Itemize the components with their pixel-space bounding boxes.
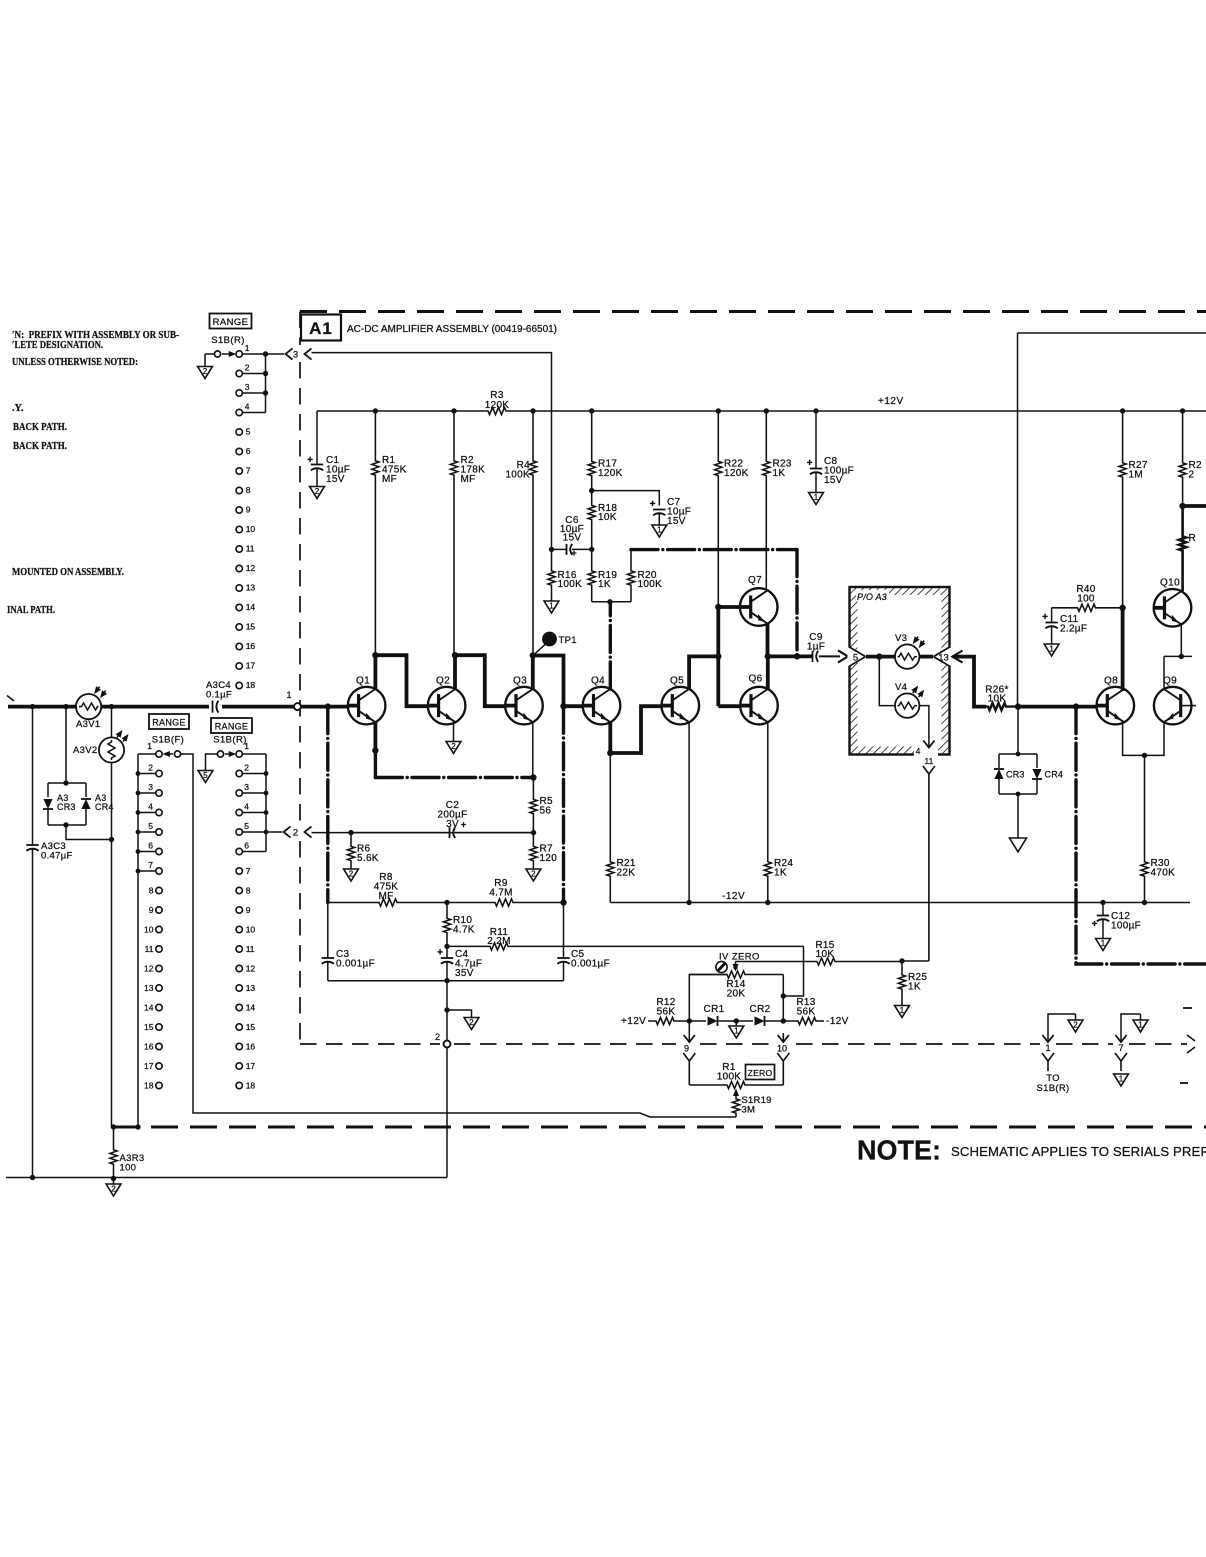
svg-text:2: 2	[293, 828, 298, 839]
svg-text:4.7M: 4.7M	[489, 888, 512, 899]
junction dots on bottom S1B(R) bus	[264, 771, 269, 776]
R14 wiper arrow	[735, 963, 737, 967]
svg-text:12: 12	[246, 563, 256, 573]
switch S1B(R) bottom contact 10	[236, 926, 242, 932]
svg-text:S1B(R): S1B(R)	[1037, 1083, 1070, 1094]
transistor Q6	[740, 687, 778, 725]
resistor R23 1K	[763, 411, 770, 589]
svg-text:8: 8	[149, 886, 154, 896]
Q8 collector thick wire to R40 node	[1121, 608, 1125, 691]
svg-text:ZERO: ZERO	[748, 1068, 773, 1078]
transistor Q7	[740, 588, 778, 626]
resistor R17 120K	[588, 411, 595, 491]
svg-text:5: 5	[853, 652, 858, 663]
IV ZERO adjust symbol	[716, 961, 727, 972]
switch S1B(R) contact 14	[236, 604, 242, 610]
svg-text:10: 10	[246, 925, 256, 935]
svg-text:RANGE: RANGE	[213, 317, 249, 328]
svg-text:100K: 100K	[638, 579, 663, 590]
ground 2 below A3R3	[111, 1176, 116, 1181]
svg-text:120K: 120K	[598, 468, 623, 479]
switch S1B(R) bus wire	[265, 354, 267, 413]
svg-text:MOUNTED ON ASSEMBLY.: MOUNTED ON ASSEMBLY.	[12, 567, 124, 578]
svg-text:2.2µF: 2.2µF	[1060, 624, 1087, 635]
connector 3 chevrons and label	[286, 348, 293, 359]
svg-text:1M: 1M	[1129, 470, 1144, 481]
resistor R8 475K MF	[328, 899, 447, 906]
svg-text:1: 1	[244, 741, 249, 751]
wire connector 3 into A1 to node above C6	[312, 353, 552, 550]
signal wire C9 node	[768, 655, 812, 659]
ground 1 below R16	[544, 601, 559, 613]
svg-text:8: 8	[246, 886, 251, 896]
ground 1 below R25	[895, 1006, 910, 1018]
svg-text:A3V1: A3V1	[76, 719, 100, 730]
svg-text:15V: 15V	[563, 533, 582, 544]
wire R11 right end down to R14 node	[783, 946, 803, 996]
transistor Q5	[662, 687, 700, 725]
output node right stub	[1179, 503, 1185, 509]
connector 7 grounds	[1121, 1014, 1141, 1033]
input signal line from page left	[8, 705, 294, 709]
svg-text:MF: MF	[461, 474, 476, 485]
svg-text:CR3: CR3	[1006, 770, 1025, 780]
resistor R1 475K MF	[372, 411, 379, 655]
switch S1B(R) bottom contact 9	[236, 907, 242, 913]
notch connector at box bottom	[914, 745, 938, 756]
resistor R15 10K	[735, 962, 737, 968]
Q5 collector wire up	[689, 656, 718, 689]
svg-text:9: 9	[246, 505, 251, 515]
ground 2 below R7	[526, 869, 541, 881]
ground 1 at CR1 CR2 junction	[734, 1018, 739, 1023]
svg-text:100: 100	[1077, 594, 1095, 605]
Q8 emitter wire	[1123, 721, 1145, 755]
junction dot R25 top	[899, 958, 904, 963]
svg-text:3: 3	[245, 382, 250, 392]
lamp A3V1 in series with input line	[76, 694, 101, 719]
page edge stubs	[1183, 1007, 1192, 1009]
resistor R9 4.7M	[447, 899, 564, 906]
capacitor A3C4 0.1uF in input line	[209, 700, 222, 713]
svg-text:1: 1	[814, 493, 819, 502]
transistor Q9	[1154, 687, 1192, 725]
svg-text:3: 3	[293, 350, 298, 361]
svg-text:1: 1	[245, 343, 250, 353]
svg-text:BACK PATH.: BACK PATH.	[13, 441, 67, 452]
wire R17-R18 junction to C7	[592, 491, 660, 506]
RANGE label box above S1B(F)	[149, 714, 189, 729]
top feedback wire	[1018, 332, 1206, 334]
junction dot CR1 left	[687, 1018, 692, 1023]
capacitor A3C3 0.47uF	[32, 707, 34, 845]
svg-text:4.7K: 4.7K	[453, 925, 475, 936]
switch S1B(R) contact 18	[236, 682, 242, 688]
switch S1B(R) bottom contact 17	[236, 1063, 242, 1069]
resistor R20 100K	[627, 550, 634, 602]
diode CR1	[689, 1020, 706, 1022]
Q6 emitter wire to R24	[767, 722, 769, 862]
resistor R22 120K	[715, 411, 722, 607]
diode CR4	[1036, 754, 1038, 768]
svg-text:16: 16	[144, 1042, 154, 1052]
svg-text:V3: V3	[895, 633, 907, 644]
resistor A3R3 100	[110, 1127, 117, 1179]
svg-text:120K: 120K	[485, 400, 510, 411]
svg-text:4: 4	[148, 802, 153, 812]
resistor R16 100K	[548, 549, 555, 601]
svg-text:8: 8	[246, 485, 251, 495]
svg-text:14: 14	[144, 1003, 154, 1013]
svg-text:1: 1	[147, 741, 152, 751]
wire bus to connector 2	[266, 831, 282, 833]
junction dots on S1B(F) bus	[136, 771, 141, 776]
svg-text:2: 2	[435, 1032, 440, 1042]
switch S1B(R) contact 8	[236, 487, 242, 493]
svg-text:-12V: -12V	[722, 891, 745, 902]
switch S1B(R) contact 12	[236, 565, 242, 571]
test point TP1	[542, 632, 557, 647]
notch connector 13 into box	[934, 646, 952, 667]
capacitor bottom common wire	[328, 980, 564, 982]
svg-text:3M: 3M	[742, 1105, 756, 1116]
svg-text:470K: 470K	[1151, 868, 1176, 879]
Q4 collector wire	[609, 602, 612, 689]
svg-text:14: 14	[246, 602, 256, 612]
resistor R7 120	[530, 833, 537, 869]
svg-text:100: 100	[120, 1163, 137, 1174]
svg-text:15: 15	[246, 1022, 256, 1032]
switch S1B(R) bottom contact 11	[236, 946, 242, 952]
potentiometer R14 20K	[689, 975, 727, 1022]
svg-text:13: 13	[246, 983, 256, 993]
resistor R2 178K MF	[450, 411, 457, 655]
wire C4 node down to pin 2	[446, 981, 448, 1041]
svg-text:CR3: CR3	[57, 802, 76, 812]
ground 2 below R6	[344, 869, 359, 881]
switch S1B(R) contact 11	[236, 546, 242, 552]
svg-text:13: 13	[938, 652, 949, 663]
svg-text:7: 7	[246, 466, 251, 476]
svg-text:Q3: Q3	[513, 676, 527, 687]
ZERO label box	[746, 1065, 775, 1080]
resistor R24 1K	[764, 862, 771, 903]
switch S1B(R) contact 3	[236, 390, 242, 396]
svg-text:.Y.: .Y.	[12, 403, 24, 414]
junction dot Q4 collector node	[607, 599, 612, 604]
svg-text:+12V: +12V	[878, 396, 904, 407]
svg-text:+: +	[1092, 919, 1098, 930]
node 1 input pin open circle on A1 boundary	[294, 703, 301, 710]
RANGE label box above bottom S1B(R)	[211, 718, 252, 733]
switch S1B(F) contact 13	[156, 985, 162, 991]
ground 2 stub near pin 2	[447, 1010, 472, 1018]
Q9 emitter wire	[1145, 721, 1165, 755]
svg-text:100µF: 100µF	[1111, 921, 1141, 932]
transistor Q3	[505, 687, 543, 725]
svg-text:5: 5	[244, 821, 249, 831]
connector 2 chevrons and label	[284, 826, 291, 837]
feedback dash-dot Q1 emitter to bus	[374, 751, 377, 778]
switch S1B(R) bottom contact 13	[236, 985, 242, 991]
A1 assembly boundary bottom dashed line	[300, 1043, 440, 1045]
switch S1B(F) contact 17	[156, 1063, 162, 1069]
svg-text:1: 1	[1138, 1021, 1143, 1030]
capacitor C7 10uF 15V	[653, 509, 665, 511]
wire V4 to connector 11 exit	[919, 706, 929, 738]
wire V3 to connector 13	[919, 655, 933, 659]
svg-text:2: 2	[244, 763, 249, 773]
svg-text:BACK PATH.: BACK PATH.	[13, 422, 67, 433]
svg-text:11: 11	[246, 544, 255, 554]
capacitor C6 10uF 15V horizontal	[552, 548, 567, 550]
Q6 collector wire up to C9 node	[766, 656, 770, 689]
switch S1B(F) wiper	[174, 751, 180, 757]
transistor Q2	[428, 687, 466, 725]
svg-text:1: 1	[1101, 939, 1106, 948]
switch S1B(F) contact 11	[156, 946, 162, 952]
junction dots on S1B(R) bus	[263, 351, 268, 356]
RANGE label box (top)	[210, 314, 252, 329]
svg-text:2: 2	[1189, 470, 1195, 481]
feedback dash-dot vertical to C9 output node	[795, 550, 798, 657]
svg-text:1K: 1K	[908, 982, 921, 993]
resistor R27 1M	[1119, 411, 1126, 608]
svg-text:100K: 100K	[505, 470, 530, 481]
svg-text:NOTE:: NOTE:	[857, 1135, 941, 1166]
svg-text:22K: 22K	[617, 868, 636, 879]
wire connector 2 into A1 to C2 line	[312, 832, 534, 834]
switch S1B(R) bottom contact 18	[236, 1082, 242, 1088]
svg-text:5: 5	[246, 427, 251, 437]
arrow into connector 5	[819, 655, 840, 657]
thick wire Q5 collector node down to Q6 base	[716, 607, 720, 706]
feedback dash-dot bus R20 top to C9 node	[631, 548, 797, 551]
svg-text:0.1µF: 0.1µF	[206, 690, 232, 701]
svg-text:2: 2	[148, 763, 153, 773]
switch S1B(R) contact 2	[236, 370, 242, 376]
svg-text:10: 10	[777, 1044, 787, 1054]
svg-text:R: R	[1189, 533, 1197, 544]
svg-text:1: 1	[1045, 1043, 1050, 1053]
switch S1B(R) contact 13	[236, 585, 242, 591]
switch S1B(R) contact 9	[236, 507, 242, 513]
switch S1B(F) contact 4	[156, 809, 162, 815]
svg-text:+: +	[1042, 612, 1048, 623]
switch S1B(F) contact 14	[156, 1004, 162, 1010]
switch S1B(R) bottom contact 12	[236, 965, 242, 971]
ground 5 at bottom S1B(R) wiper	[206, 754, 218, 771]
svg-text:0.001µF: 0.001µF	[336, 959, 375, 970]
switch S1B(R) bottom contact 5	[236, 829, 242, 835]
switch S1B(F) contact 3	[156, 790, 162, 796]
junction dot to CR pair	[63, 704, 68, 709]
resistor R13 56K	[783, 1017, 824, 1024]
wire S1B(F) wiper to right frame down to SIR19 line	[181, 754, 736, 1117]
connector 11 receiving chevron below box	[923, 766, 935, 774]
external arrow into connector 13	[953, 651, 963, 663]
resistor R3 120K in rail	[488, 407, 507, 414]
svg-text:Q1: Q1	[356, 676, 370, 687]
A1 assembly boundary top dashed line	[300, 310, 1206, 313]
svg-text:MF: MF	[382, 474, 397, 485]
svg-text:11: 11	[924, 756, 933, 766]
svg-text:1: 1	[657, 526, 662, 535]
svg-text:35V: 35V	[455, 968, 474, 979]
junction dots on R8-R9 line	[444, 900, 449, 905]
svg-text:1: 1	[549, 602, 554, 611]
svg-text:2: 2	[349, 870, 354, 879]
bottom common rail wire	[6, 1177, 447, 1179]
svg-text:RANGE: RANGE	[215, 722, 249, 732]
svg-text:4: 4	[916, 746, 921, 756]
svg-text:1: 1	[1119, 1075, 1124, 1084]
heavy dash-dot feedback from Q8 base node	[1076, 707, 1206, 964]
svg-text:3V: 3V	[446, 819, 459, 830]
switch S1B(R) contact 10	[236, 526, 242, 532]
svg-text:10K: 10K	[988, 694, 1007, 705]
junction dot A3C3 bottom	[30, 1175, 35, 1180]
svg-text:1K: 1K	[774, 868, 787, 879]
svg-text:12: 12	[246, 964, 256, 974]
svg-text:A1: A1	[309, 319, 333, 338]
switch S1B(F) contact 15	[156, 1024, 162, 1030]
input wire pin1 to Q1 base	[301, 705, 348, 709]
connector 1 to S1B(R) with ground 2	[1048, 1014, 1076, 1033]
junction dot input node to feedback	[325, 703, 331, 709]
connector 9	[688, 1021, 690, 1033]
svg-text:+12V: +12V	[621, 1016, 646, 1027]
svg-text:6: 6	[246, 446, 251, 456]
resistor R30 470K	[1141, 755, 1148, 902]
switch S1B(R) bottom contact 4	[236, 809, 242, 815]
resistor R28 (clipped at page edge)	[1179, 411, 1186, 506]
thick wire R26 to Q8 base	[1018, 705, 1097, 709]
Q7 collector wire to R23	[767, 589, 769, 591]
svg-text:UNLESS OTHERWISE NOTED:: UNLESS OTHERWISE NOTED:	[12, 357, 138, 368]
resistor R29 thick to Q10 collector	[1179, 506, 1186, 591]
svg-text:18: 18	[246, 680, 256, 690]
switch S1B(R) contact 4	[236, 409, 242, 415]
Q3 emitter wire to bus	[532, 722, 534, 777]
switch S1B(R) bottom contact 1	[236, 751, 242, 757]
connector 10	[778, 1035, 789, 1042]
switch S1B(R) bottom wiper	[217, 751, 223, 757]
svg-text:+: +	[650, 499, 656, 510]
long vertical wire from top line to R26 node	[1017, 333, 1019, 707]
switch S1B(F) contact 8	[156, 887, 162, 893]
svg-text:9: 9	[149, 905, 154, 915]
svg-text:18: 18	[144, 1081, 154, 1091]
svg-text:15V: 15V	[824, 475, 843, 486]
switch S1B(F) contact 5	[156, 829, 162, 835]
wire R19 to Q4 collector node	[592, 601, 610, 603]
lamp V4	[879, 657, 895, 706]
wire connector 11 to R25 node	[902, 960, 929, 962]
Q7 emitter wire down to C9 node	[766, 624, 770, 657]
svg-text:2.2M: 2.2M	[487, 936, 510, 947]
svg-text:10K: 10K	[598, 512, 617, 523]
svg-text:V4: V4	[895, 682, 907, 693]
switch S1B(R) contact 16	[236, 643, 242, 649]
switch S1B(R) contact 15	[236, 624, 242, 630]
svg-text:1: 1	[900, 1006, 905, 1015]
svg-text:+: +	[807, 458, 813, 469]
diode A3CR4	[85, 783, 87, 797]
capacitor C5 0.001uF	[563, 903, 565, 959]
switch S1B(R) bottom contact 2	[236, 770, 242, 776]
svg-text:RANGE: RANGE	[152, 718, 186, 728]
svg-text:17: 17	[246, 661, 256, 671]
svg-text:10: 10	[246, 524, 256, 534]
resistor R26* 10K	[986, 703, 1018, 710]
svg-text:15: 15	[144, 1022, 154, 1032]
svg-text:16: 16	[246, 641, 256, 651]
svg-text:Q8: Q8	[1104, 676, 1118, 687]
transistor Q8	[1097, 687, 1135, 725]
svg-text:S1B(F): S1B(F)	[152, 735, 185, 746]
svg-text:CR1: CR1	[704, 1004, 725, 1015]
svg-text:0.001µF: 0.001µF	[571, 959, 610, 970]
svg-text:18: 18	[246, 1081, 256, 1091]
switch S1B(R) contact 1	[236, 351, 242, 357]
photoresistor A3V2	[111, 707, 113, 738]
resistor R40 100	[1052, 604, 1123, 611]
svg-text:TP1: TP1	[559, 635, 577, 646]
svg-text:7: 7	[246, 866, 251, 876]
switch S1B(R) bottom bus wire	[265, 754, 267, 852]
Q2 collector wire to Q3 base	[455, 655, 505, 706]
svg-text:100K: 100K	[558, 579, 583, 590]
svg-text:120K: 120K	[724, 468, 749, 479]
switch S1B(F) contact 7	[156, 868, 162, 874]
R1 wiper arrow from S1R19	[735, 1093, 737, 1097]
switch S1B(F) contact 12	[156, 965, 162, 971]
resistor R21 22K	[607, 753, 614, 903]
A1 boundary edge connector notch at page edge	[1187, 1035, 1195, 1041]
svg-text:1: 1	[734, 1027, 739, 1036]
capacitor C4 4.7uF 35V	[446, 947, 448, 958]
switch S1B(R) bottom contact 16	[236, 1043, 242, 1049]
svg-text:5: 5	[203, 771, 208, 780]
svg-text:3: 3	[148, 782, 153, 792]
svg-text:2: 2	[203, 367, 208, 376]
junction dot to A3C3	[30, 704, 35, 709]
svg-text:0.47µF: 0.47µF	[41, 851, 73, 862]
switch S1B(F) bus wire down to heavy dashed line	[137, 754, 139, 1127]
transistor Q10	[1154, 589, 1192, 627]
svg-text:CR2: CR2	[750, 1004, 771, 1015]
svg-text:+: +	[307, 455, 313, 466]
svg-text:ʹLETE DESIGNATION.: ʹLETE DESIGNATION.	[12, 340, 103, 351]
svg-text:12: 12	[144, 964, 154, 974]
resistor R5 56	[530, 778, 537, 833]
svg-text:17: 17	[144, 1061, 154, 1071]
svg-text:2: 2	[315, 487, 320, 496]
svg-text:S1B(R): S1B(R)	[211, 335, 245, 346]
transistor Q1	[348, 687, 386, 725]
wire R20 to Q4 collector node	[610, 601, 631, 603]
svg-text:56K: 56K	[797, 1007, 816, 1018]
svg-text:AC-DC AMPLIFIER ASSEMBLY (0041: AC-DC AMPLIFIER ASSEMBLY (00419-66501)	[347, 324, 557, 335]
svg-text:Q5: Q5	[670, 676, 684, 687]
svg-text:11: 11	[246, 944, 255, 954]
capacitor C11 2.2uF	[1051, 608, 1053, 623]
svg-text:20K: 20K	[727, 989, 746, 1000]
switch S1B(R) contact 7	[236, 468, 242, 474]
junction dots on -12V rail	[686, 900, 691, 905]
Q7 base wire	[718, 605, 740, 609]
